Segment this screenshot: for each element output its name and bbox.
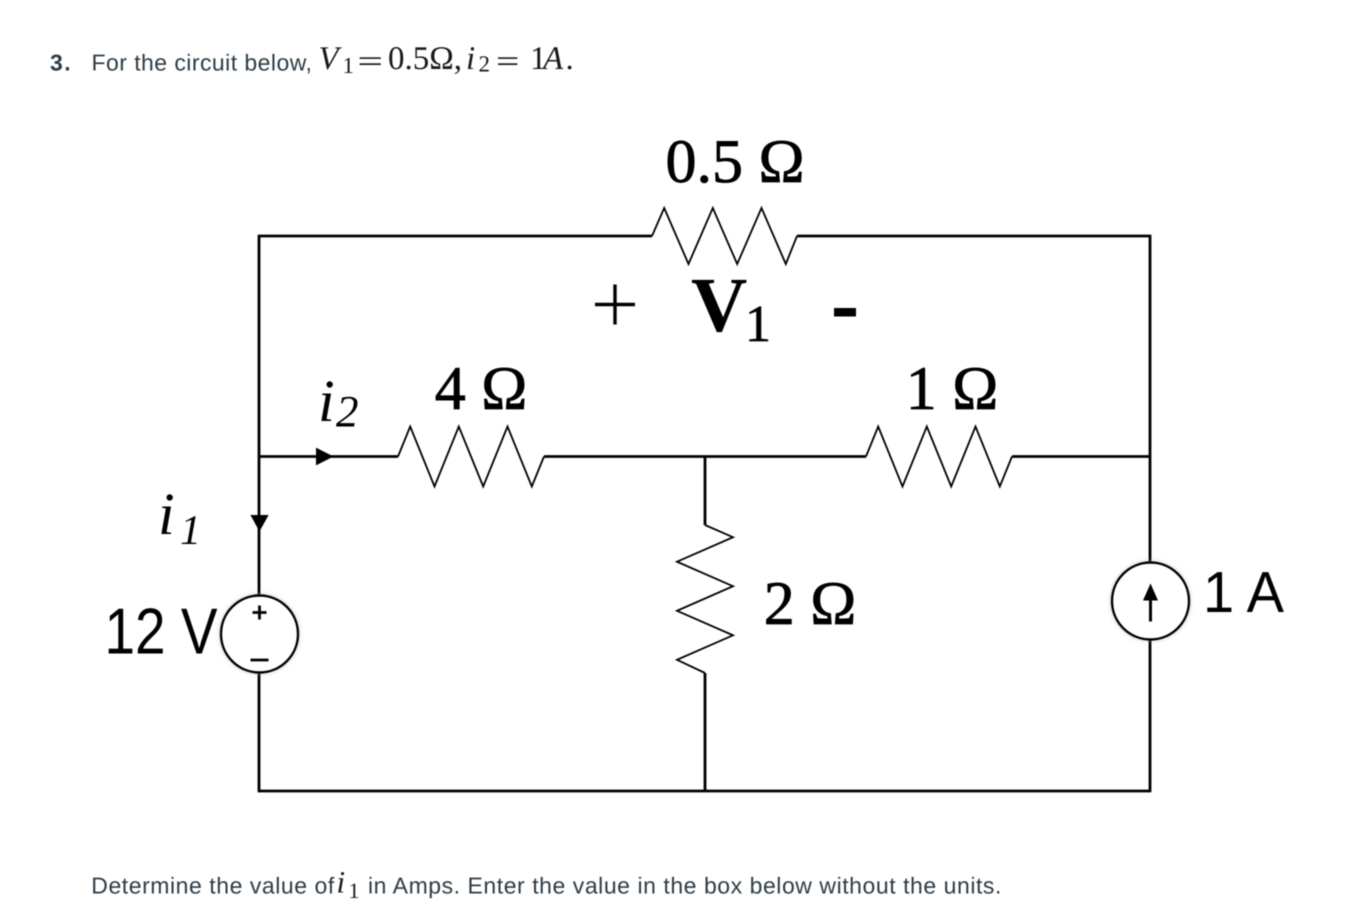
svg-text:1: 1: [180, 508, 201, 554]
svg-text:3.: 3.: [50, 49, 72, 75]
svg-text:4 Ω: 4 Ω: [435, 355, 528, 423]
svg-text:1 Ω: 1 Ω: [906, 355, 999, 423]
svg-text:2: 2: [479, 51, 491, 76]
svg-text:V: V: [691, 261, 747, 348]
svg-text:A: A: [541, 41, 564, 77]
svg-text:1: 1: [745, 296, 771, 353]
svg-text:1 A: 1 A: [1203, 560, 1284, 625]
svg-text:.: .: [566, 41, 574, 77]
svg-text:12 V: 12 V: [105, 595, 219, 668]
svg-text:in Amps. Enter the value in th: in Amps. Enter the value in the box belo…: [368, 872, 1002, 898]
svg-text:i: i: [158, 481, 175, 547]
svg-text:1: 1: [343, 53, 355, 78]
svg-text:1: 1: [349, 878, 360, 903]
svg-text:0.5 Ω: 0.5 Ω: [665, 128, 804, 196]
svg-text:i: i: [466, 41, 475, 77]
svg-text:i: i: [337, 865, 346, 900]
svg-text:i: i: [318, 368, 335, 434]
svg-text:0.5Ω,: 0.5Ω,: [388, 41, 462, 77]
svg-text:For the circuit below,: For the circuit below,: [92, 49, 313, 75]
svg-text:2: 2: [336, 387, 359, 437]
svg-text:V: V: [319, 41, 343, 77]
svg-text:2 Ω: 2 Ω: [764, 570, 857, 638]
svg-text:Determine the value of: Determine the value of: [91, 872, 335, 898]
